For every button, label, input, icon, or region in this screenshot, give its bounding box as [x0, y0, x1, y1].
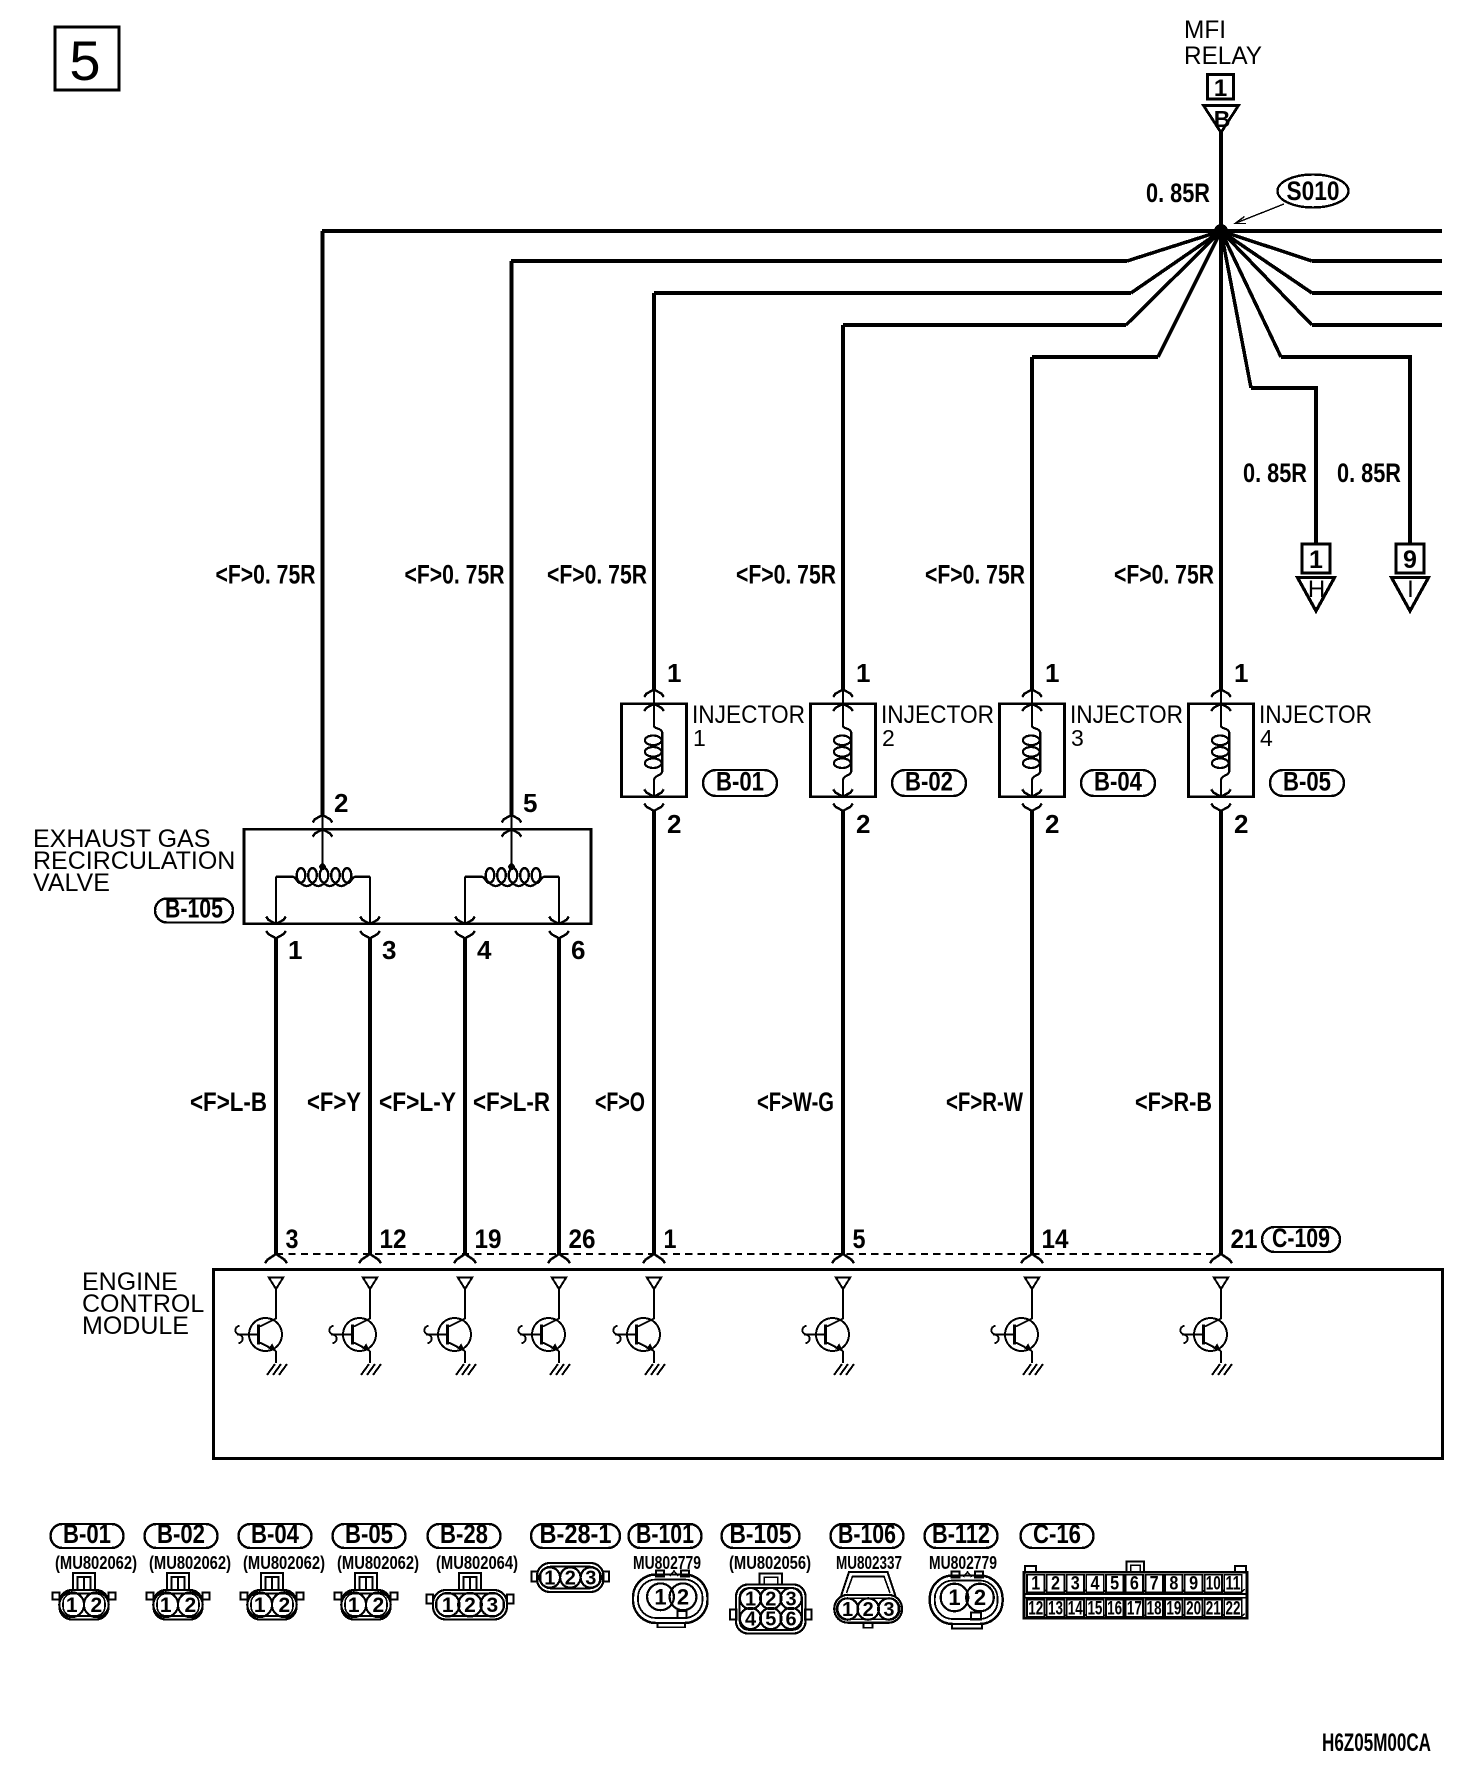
svg-text:<F>R-W: <F>R-W	[946, 1087, 1023, 1117]
EGR valve name label	[33, 825, 235, 897]
wire EGR pin 1 to ECM	[274, 938, 278, 1254]
svg-text:9: 9	[1189, 1574, 1198, 1595]
svg-text:B: B	[1214, 106, 1231, 132]
connector view B-28-1	[531, 1519, 620, 1549]
svg-text:<F>0. 75R: <F>0. 75R	[925, 560, 1025, 590]
injector 3 box B-04	[1000, 704, 1065, 797]
terminal pin box 1 (to H)	[1302, 544, 1330, 574]
svg-text:2: 2	[677, 1585, 689, 1610]
injector 3 connector pin 2 (chevrons)	[1022, 789, 1042, 811]
svg-text:2: 2	[1051, 1574, 1060, 1595]
injector 3 connector pin 1 (chevrons)	[1022, 690, 1042, 712]
svg-text:3: 3	[883, 1599, 894, 1621]
injector 4 connector pin 2 (chevrons)	[1211, 789, 1231, 811]
svg-text:B-28: B-28	[440, 1519, 488, 1549]
wire splice diagonal to (1312,293)	[1221, 231, 1312, 293]
svg-text:2: 2	[372, 1594, 384, 1617]
svg-text:INJECTOR: INJECTOR	[692, 701, 805, 729]
svg-text:10: 10	[1206, 1574, 1221, 1595]
ECM pin triangle 26	[552, 1278, 566, 1290]
svg-text:1: 1	[667, 658, 681, 688]
svg-text:22: 22	[1226, 1598, 1241, 1619]
svg-text:1: 1	[654, 1585, 666, 1610]
svg-text:B-105: B-105	[165, 894, 223, 924]
svg-text:<F>W-G: <F>W-G	[757, 1087, 834, 1117]
connector drawing B-28	[427, 1573, 514, 1620]
connector drawing B-105	[730, 1574, 812, 1634]
svg-text:5: 5	[853, 1224, 866, 1254]
wire branch left y=325	[843, 323, 1126, 327]
injector 4 name label	[1259, 701, 1372, 751]
ECM pin triangle 19	[458, 1278, 472, 1290]
svg-text:21: 21	[1206, 1598, 1221, 1619]
svg-text:19: 19	[475, 1224, 502, 1254]
page connector triangle B (from MFI relay)	[1204, 106, 1239, 133]
svg-text:6: 6	[1130, 1574, 1139, 1595]
connector drawing B-01	[53, 1573, 116, 1620]
harness terminal splay at ECM pin 12	[359, 1254, 381, 1263]
svg-text:6: 6	[786, 1609, 797, 1631]
svg-text:<F>0. 75R: <F>0. 75R	[736, 560, 836, 590]
wire vertical to injector 2	[841, 325, 845, 690]
EGR solenoid coil 1	[276, 829, 370, 924]
svg-text:B-101: B-101	[636, 1519, 694, 1549]
svg-text:<F>R-B: <F>R-B	[1135, 1087, 1212, 1117]
svg-text:VALVE: VALVE	[33, 869, 110, 897]
injector 1 connector pin 2 (chevrons)	[644, 789, 664, 811]
svg-text:(MU802064): (MU802064)	[436, 1553, 518, 1573]
injector 4 coil	[1212, 704, 1229, 797]
EGR connector pin 6 (chevrons)	[549, 917, 569, 939]
svg-text:2: 2	[1045, 809, 1059, 839]
svg-text:1: 1	[948, 1585, 960, 1610]
connector view B-05	[333, 1519, 406, 1549]
svg-text:(MU802062): (MU802062)	[55, 1553, 137, 1573]
svg-text:1: 1	[66, 1594, 78, 1617]
connector label B-105 (EGR)	[155, 894, 233, 924]
terminal pin box 9 (to I)	[1396, 544, 1424, 574]
wire injector 4 to ECM	[1219, 811, 1223, 1254]
connector label B-01	[703, 767, 777, 797]
svg-text:1: 1	[1309, 546, 1323, 574]
connector view B-28	[428, 1519, 501, 1549]
svg-text:H6Z05M00CA: H6Z05M00CA	[1322, 1729, 1431, 1757]
svg-text:1: 1	[856, 658, 870, 688]
transistor driver for pin 14	[991, 1289, 1038, 1363]
connector drawing B-106	[834, 1572, 902, 1628]
svg-text:MU802779: MU802779	[633, 1553, 701, 1573]
transistor driver for pin 1	[613, 1289, 660, 1363]
svg-text:0. 85R: 0. 85R	[1337, 458, 1401, 488]
ECM pin triangle 1	[647, 1278, 661, 1290]
svg-text:2: 2	[278, 1594, 290, 1617]
ground (pin 12 driver)	[361, 1364, 381, 1375]
svg-text:B-28-1: B-28-1	[540, 1519, 612, 1549]
injector 1 coil	[645, 704, 662, 797]
ground (pin 14 driver)	[1023, 1364, 1043, 1375]
svg-text:1: 1	[348, 1594, 360, 1617]
svg-text:2: 2	[464, 1594, 476, 1617]
svg-text:B-02: B-02	[157, 1519, 205, 1549]
harness terminal splay at ECM pin 5	[832, 1254, 854, 1263]
wire vertical to EGR pin 2	[321, 231, 325, 815]
injector 3 coil	[1023, 704, 1040, 797]
wire branch right y=261	[1312, 259, 1442, 263]
svg-text:2: 2	[863, 1599, 874, 1621]
svg-text:RELAY: RELAY	[1184, 42, 1262, 70]
splice callout S010	[1235, 175, 1349, 224]
EGR solenoid coil 2	[465, 829, 559, 924]
harness terminal splay at ECM pin 1	[643, 1254, 665, 1263]
harness terminal splay at ECM pin 21	[1210, 1254, 1232, 1263]
connector label B-02	[892, 767, 966, 797]
svg-text:18: 18	[1147, 1598, 1162, 1619]
svg-text:B-04: B-04	[1094, 767, 1142, 797]
svg-text:INJECTOR: INJECTOR	[881, 701, 994, 729]
wire injector 2 to ECM	[841, 811, 845, 1254]
connector view C-16	[1021, 1519, 1094, 1549]
svg-text:H: H	[1308, 576, 1325, 603]
svg-text:1: 1	[544, 1568, 555, 1590]
connector label C-109	[1262, 1223, 1340, 1253]
svg-text:3: 3	[585, 1568, 596, 1590]
svg-text:4: 4	[1090, 1574, 1099, 1595]
ground (pin 19 driver)	[456, 1364, 476, 1375]
svg-text:5: 5	[69, 29, 100, 92]
svg-text:5: 5	[765, 1609, 776, 1631]
connector label B-04	[1081, 767, 1155, 797]
harness terminal splay at ECM pin 26	[548, 1254, 570, 1263]
injector 1 name label	[692, 701, 805, 751]
svg-text:2: 2	[90, 1594, 102, 1617]
wire branch right y=293	[1312, 291, 1442, 295]
EGR connector pin 2 (chevrons)	[313, 815, 333, 837]
injector 4 box B-05	[1189, 704, 1254, 797]
svg-text:1: 1	[288, 935, 302, 965]
svg-text:<F>L-Y: <F>L-Y	[379, 1087, 456, 1117]
ground (pin 3 driver)	[267, 1364, 287, 1375]
svg-text:I: I	[1407, 576, 1414, 603]
injector 2 coil	[834, 704, 851, 797]
svg-text:<F>Y: <F>Y	[307, 1087, 361, 1117]
wire EGR pin 4 to ECM	[463, 938, 467, 1254]
svg-text:2: 2	[667, 809, 681, 839]
svg-text:2: 2	[856, 809, 870, 839]
svg-text:(MU802062): (MU802062)	[243, 1553, 325, 1573]
ECM pin triangle 12	[363, 1278, 377, 1290]
connector drawing B-04	[241, 1573, 304, 1620]
svg-text:B-02: B-02	[905, 767, 953, 797]
svg-text:1: 1	[842, 1599, 853, 1621]
svg-text:MODULE: MODULE	[82, 1312, 189, 1340]
ground (pin 21 driver)	[1212, 1364, 1232, 1375]
svg-text:4: 4	[477, 935, 492, 965]
wire splice diagonal to (1281,357)	[1221, 231, 1281, 357]
svg-text:6: 6	[571, 935, 585, 965]
harness terminal splay at ECM pin 3	[265, 1254, 287, 1263]
svg-text:1: 1	[1214, 75, 1227, 102]
wire injector 3 to ECM	[1030, 811, 1034, 1254]
svg-text:0. 85R: 0. 85R	[1146, 178, 1210, 208]
svg-text:9: 9	[1403, 546, 1417, 574]
svg-text:3: 3	[1071, 1574, 1080, 1595]
connector view B-02	[145, 1519, 218, 1549]
splice junction S010	[1214, 224, 1228, 238]
MFI RELAY label	[1184, 16, 1262, 70]
wire branch right to terminal H	[1251, 388, 1316, 544]
svg-text:1: 1	[1031, 1574, 1040, 1595]
transistor driver for pin 21	[1180, 1289, 1227, 1363]
connector drawing B-02	[147, 1573, 210, 1620]
connector label B-05	[1270, 767, 1344, 797]
svg-text:3: 3	[1071, 725, 1084, 751]
svg-text:MFI: MFI	[1184, 16, 1226, 44]
svg-text:(MU802056): (MU802056)	[729, 1553, 811, 1573]
svg-text:2: 2	[565, 1568, 576, 1590]
wire branch left y=357	[1032, 355, 1158, 359]
svg-text:0. 85R: 0. 85R	[1243, 458, 1307, 488]
svg-text:INJECTOR: INJECTOR	[1070, 701, 1183, 729]
ground (pin 5 driver)	[834, 1364, 854, 1375]
svg-text:4: 4	[1260, 725, 1273, 751]
ENGINE CONTROL MODULE label	[82, 1268, 204, 1340]
svg-text:2: 2	[1234, 809, 1248, 839]
EGR connector pin 1 (chevrons)	[266, 917, 286, 939]
connector drawing C-16	[1024, 1562, 1247, 1620]
svg-text:3: 3	[382, 935, 396, 965]
injector 1 box B-01	[622, 704, 687, 797]
connector drawing B-05	[335, 1573, 398, 1620]
page number box 5	[55, 27, 119, 92]
injector 2 connector pin 2 (chevrons)	[833, 789, 853, 811]
svg-text:1: 1	[1045, 658, 1059, 688]
wire vertical to EGR pin 5	[510, 261, 514, 815]
svg-text:17: 17	[1127, 1598, 1142, 1619]
wire branch left y=261	[511, 259, 1127, 263]
wire splice diagonal to (1126,325)	[1126, 231, 1221, 325]
ECM pin triangle 21	[1214, 1278, 1228, 1290]
wire splice diagonal to (1251,388)	[1221, 231, 1251, 388]
wire MFI relay B to splice S010	[1219, 132, 1223, 231]
wire vertical to injector 3	[1030, 357, 1034, 690]
svg-text:13: 13	[1048, 1598, 1063, 1619]
EGR valve box B-105	[244, 829, 591, 924]
svg-text:<F>0. 75R: <F>0. 75R	[405, 560, 505, 590]
svg-text:B-112: B-112	[932, 1519, 990, 1549]
svg-text:21: 21	[1231, 1224, 1258, 1254]
svg-text:<F>0. 75R: <F>0. 75R	[1114, 560, 1214, 590]
ground (pin 26 driver)	[550, 1364, 570, 1375]
EGR connector pin 5 (chevrons)	[502, 815, 522, 837]
wire EGR pin 6 to ECM	[557, 938, 561, 1254]
svg-text:5: 5	[1110, 1574, 1119, 1595]
page connector triangle H	[1298, 576, 1335, 611]
wire vertical to injector 4	[1219, 231, 1223, 690]
svg-text:2: 2	[184, 1594, 196, 1617]
wire main bus y=231 (splice through-line)	[322, 229, 1442, 233]
svg-text:14: 14	[1068, 1598, 1083, 1619]
ECM connector dashed line C-109	[276, 1253, 1221, 1255]
connector view B-01	[51, 1519, 124, 1549]
transistor driver for pin 5	[802, 1289, 849, 1363]
svg-text:1: 1	[664, 1224, 677, 1254]
injector 4 connector pin 1 (chevrons)	[1211, 690, 1231, 712]
svg-text:8: 8	[1169, 1574, 1178, 1595]
svg-text:20: 20	[1186, 1598, 1201, 1619]
transistor driver for pin 19	[424, 1289, 471, 1363]
svg-text:2: 2	[334, 788, 348, 818]
ground (pin 1 driver)	[645, 1364, 665, 1375]
svg-text:4: 4	[745, 1609, 757, 1631]
EGR connector pin 4 (chevrons)	[455, 917, 475, 939]
svg-text:12: 12	[380, 1224, 407, 1254]
svg-text:B-01: B-01	[63, 1519, 111, 1549]
svg-text:MU802337: MU802337	[836, 1553, 902, 1573]
svg-text:16: 16	[1107, 1598, 1122, 1619]
svg-text:B-05: B-05	[1283, 767, 1331, 797]
svg-text:<F>L-B: <F>L-B	[190, 1087, 267, 1117]
transistor driver for pin 3	[235, 1289, 282, 1363]
wire splice diagonal to (1312,325)	[1221, 231, 1312, 325]
injector 3 name label	[1070, 701, 1183, 751]
svg-text:<F>O: <F>O	[595, 1087, 645, 1117]
wire vertical to injector 1	[652, 293, 656, 690]
harness terminal splay at ECM pin 19	[454, 1254, 476, 1263]
svg-text:B-01: B-01	[716, 767, 764, 797]
svg-text:S010: S010	[1287, 176, 1340, 206]
wire splice diagonal to (1158,357)	[1158, 231, 1221, 357]
svg-text:C-16: C-16	[1033, 1519, 1081, 1549]
svg-text:B-04: B-04	[251, 1519, 299, 1549]
svg-text:<F>L-R: <F>L-R	[473, 1087, 550, 1117]
svg-text:3: 3	[286, 1224, 299, 1254]
injector 2 name label	[881, 701, 994, 751]
transistor driver for pin 26	[518, 1289, 565, 1363]
connector view B-04	[239, 1519, 312, 1549]
injector 1 connector pin 1 (chevrons)	[644, 690, 664, 712]
svg-text:11: 11	[1226, 1574, 1241, 1595]
svg-text:1: 1	[1234, 658, 1248, 688]
svg-text:B-106: B-106	[838, 1519, 896, 1549]
wire splice diagonal to (1127,261)	[1127, 231, 1221, 261]
svg-text:1: 1	[160, 1594, 172, 1617]
MFI relay pin 1 box	[1208, 75, 1234, 103]
connector view B-105	[722, 1519, 800, 1549]
connector drawing B-101	[633, 1571, 708, 1628]
wire branch right y=325	[1312, 323, 1442, 327]
svg-text:14: 14	[1042, 1224, 1069, 1254]
svg-text:19: 19	[1166, 1598, 1181, 1619]
svg-text:2: 2	[882, 725, 895, 751]
wire branch right to terminal I	[1281, 357, 1410, 544]
svg-text:5: 5	[523, 788, 537, 818]
svg-text:(MU802062): (MU802062)	[337, 1553, 419, 1573]
svg-text:MU802779: MU802779	[929, 1553, 997, 1573]
connector view B-101	[629, 1519, 702, 1549]
ECM pin triangle 14	[1025, 1278, 1039, 1290]
transistor driver for pin 12	[329, 1289, 376, 1363]
svg-text:<F>0. 75R: <F>0. 75R	[216, 560, 316, 590]
ECM pin triangle 3	[269, 1278, 283, 1290]
page connector triangle I	[1392, 576, 1429, 611]
injector 2 box B-02	[811, 704, 876, 797]
svg-text:1: 1	[693, 725, 706, 751]
wire branch left y=293	[654, 291, 1131, 295]
svg-text:12: 12	[1028, 1598, 1043, 1619]
svg-text:<F>0. 75R: <F>0. 75R	[547, 560, 647, 590]
svg-text:1: 1	[442, 1594, 454, 1617]
svg-text:3: 3	[486, 1594, 498, 1617]
svg-text:26: 26	[569, 1224, 596, 1254]
wire splice diagonal to (1131,293)	[1131, 231, 1221, 293]
harness terminal splay at ECM pin 14	[1021, 1254, 1043, 1263]
svg-text:B-05: B-05	[345, 1519, 393, 1549]
wire EGR pin 3 to ECM	[368, 938, 372, 1254]
svg-text:(MU802062): (MU802062)	[149, 1553, 231, 1573]
ECM pin triangle 5	[836, 1278, 850, 1290]
engine control module box	[214, 1270, 1443, 1459]
svg-text:15: 15	[1087, 1598, 1102, 1619]
svg-text:1: 1	[254, 1594, 266, 1617]
connector view B-106	[831, 1519, 904, 1549]
svg-text:C-109: C-109	[1272, 1223, 1330, 1253]
connector view B-112	[925, 1519, 998, 1549]
connector drawing B-28-1	[532, 1563, 610, 1592]
wire splice diagonal to (1312,261)	[1221, 231, 1312, 261]
wire injector 1 to ECM	[652, 811, 656, 1254]
svg-text:7: 7	[1150, 1574, 1159, 1595]
injector 2 connector pin 1 (chevrons)	[833, 690, 853, 712]
svg-text:2: 2	[974, 1585, 986, 1610]
svg-text:B-105: B-105	[730, 1519, 792, 1549]
EGR connector pin 3 (chevrons)	[360, 917, 380, 939]
svg-text:INJECTOR: INJECTOR	[1259, 701, 1372, 729]
connector drawing B-112	[930, 1572, 1003, 1629]
